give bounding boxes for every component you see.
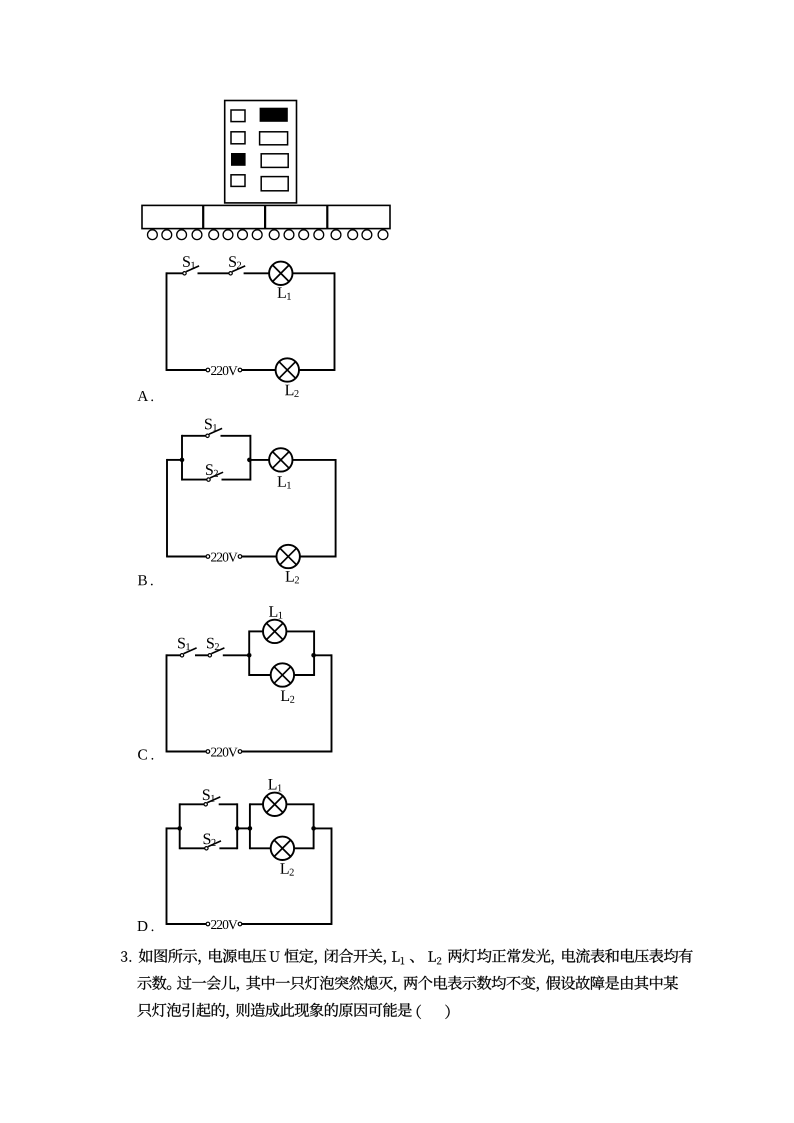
wire left vertical <box>166 654 168 752</box>
power source terminal right <box>238 750 242 754</box>
wire left vertical <box>166 827 168 925</box>
power source terminal left <box>206 750 210 754</box>
option label B <box>138 575 153 585</box>
junction dot right (circuit B) <box>247 458 252 463</box>
option label A <box>137 391 153 401</box>
junction dot switchbox-right (circuit D) <box>235 826 240 831</box>
label S2 (circuit D) <box>204 834 216 846</box>
switch S2 (circuit D) <box>205 841 221 850</box>
wire to L2 <box>242 556 277 558</box>
label S2 (circuit A) <box>229 256 241 268</box>
power source terminal left <box>206 922 210 926</box>
window row1 right (black) <box>260 108 288 122</box>
wire lamp box right vertical <box>313 803 315 849</box>
car divider 2 <box>264 205 266 228</box>
wire bottom branch to S2 <box>182 479 207 481</box>
label L2 (circuit A) <box>285 385 299 397</box>
junction dot lampbox-left (circuit D) <box>248 826 253 831</box>
wire right vertical <box>334 272 336 371</box>
wire L2 to corner <box>300 556 336 558</box>
wire top: corner to S1 <box>167 272 183 274</box>
wire bottom right <box>242 923 332 925</box>
wire bottom right <box>242 751 332 753</box>
label S2 (circuit B) <box>206 464 218 476</box>
wire stub to switch box <box>167 827 180 829</box>
power source label 220V <box>211 920 237 929</box>
wire L1 to box right <box>286 803 313 805</box>
wire right vertical <box>335 459 337 558</box>
circuit B wires <box>167 435 336 558</box>
label L1 (circuit A) <box>278 287 291 299</box>
power source label 220V <box>211 366 237 375</box>
switch S2 (circuit A) <box>229 266 245 275</box>
label L1 (circuit D) <box>268 779 281 791</box>
question text line 2 <box>137 976 678 992</box>
junction dot lampbox-right (circuit D) <box>311 826 316 831</box>
window row4 left (white) <box>231 175 245 187</box>
switch S2 (circuit C) <box>208 648 224 657</box>
window row3 left (black) <box>231 153 246 166</box>
wire switch box left vertical <box>179 803 181 849</box>
wire S2 to lamp L1 <box>244 272 270 274</box>
option label C <box>138 749 153 759</box>
switch S1 (circuit B) <box>206 428 222 437</box>
wire switch box right vertical <box>236 803 238 849</box>
wire box left vertical <box>248 630 250 676</box>
wire L1 to corner <box>293 272 335 274</box>
wire box right vertical <box>313 630 315 676</box>
label L1 (circuit B) <box>278 476 291 488</box>
lamp L2 (circuit A) <box>276 358 299 381</box>
window row3 right (white) <box>261 154 288 168</box>
wire S1 to S2 <box>195 654 208 656</box>
wire S1 to box right <box>221 435 251 437</box>
question text line 3 <box>137 1003 449 1019</box>
power source terminal left <box>206 368 210 372</box>
label L2 (circuit B) <box>286 571 300 583</box>
power source label 220V <box>211 553 237 562</box>
label S2 (circuit C) <box>207 638 219 650</box>
switch S2 (circuit B) <box>207 472 223 481</box>
lamp L2 (circuit B) <box>277 545 300 568</box>
lamp L1 (circuit B) <box>269 448 292 471</box>
train body bar <box>142 205 390 228</box>
wire L1 to right corner <box>293 459 336 461</box>
wire stub to switch box <box>167 459 182 461</box>
wire top branch to S1 <box>182 435 206 437</box>
wire lamp box to right corner <box>314 827 332 829</box>
window row2 right (white) <box>260 132 288 145</box>
label L1 (circuit C) <box>269 606 282 618</box>
power source terminal right <box>238 368 242 372</box>
wire bottom branch to L2 <box>249 674 271 676</box>
train wheels <box>148 230 388 240</box>
car divider 1 <box>202 205 204 228</box>
wire to S1 <box>167 654 181 656</box>
power source 220V (circuit C) <box>206 748 242 757</box>
wire S1 to box right <box>219 803 238 805</box>
wire right vertical <box>331 654 333 752</box>
wire L2 to box right <box>294 847 314 849</box>
power source 220V (circuit A) <box>206 366 242 375</box>
label L2 (circuit C) <box>281 691 295 703</box>
window row2 left (white) <box>231 132 245 144</box>
wire S2 to box right <box>222 479 251 481</box>
question text line 1 <box>121 949 693 965</box>
lamp L2 (circuit D) <box>271 837 294 860</box>
wire L1 to box right <box>286 630 314 632</box>
wire bottom: corner to left terminal <box>167 369 207 371</box>
option label D <box>137 921 153 931</box>
wire right vertical <box>331 827 333 925</box>
wire bottom left <box>167 923 207 925</box>
junction dot left (circuit C) <box>247 653 252 658</box>
wire S2 to box right <box>219 847 237 849</box>
wire bottom branch to S2 <box>180 847 205 849</box>
label L2 (circuit D) <box>280 863 294 875</box>
wire to L1 <box>250 803 263 805</box>
label S1 (circuit B) <box>205 419 217 431</box>
switch S1 (circuit C) <box>180 648 196 657</box>
circuit A wires <box>167 272 335 371</box>
label S1 (circuit D) <box>203 789 215 801</box>
switch S1 (circuit A) <box>183 266 199 275</box>
wire box to right corner <box>314 654 331 656</box>
wire S2 to lamp box <box>223 654 249 656</box>
wire L2 to box right <box>294 674 314 676</box>
power source terminal left <box>206 555 210 559</box>
wire S1 to S2 <box>198 272 229 274</box>
lamp L2 (circuit C) <box>271 663 294 686</box>
wire bottom left <box>167 556 206 558</box>
wire box right vertical <box>249 435 251 481</box>
junction dot right (circuit C) <box>311 653 316 658</box>
car divider 3 <box>326 205 328 228</box>
lamp L1 (circuit A) <box>269 262 292 285</box>
junction dot left (circuit B) <box>180 458 185 463</box>
wire top branch to S1 <box>180 803 204 805</box>
window row1 left (white) <box>231 110 245 122</box>
power source label 220V <box>211 748 237 757</box>
wire L2 to corner <box>299 369 335 371</box>
switch S1 (circuit D) <box>204 797 220 806</box>
circuit C wires <box>167 630 332 752</box>
power source 220V (circuit D) <box>206 920 242 929</box>
lamp L1 (circuit C) <box>263 620 286 643</box>
wire left vertical <box>166 272 168 371</box>
building outline <box>225 101 297 203</box>
circuit D wires <box>167 803 332 925</box>
power source 220V (circuit B) <box>206 553 242 562</box>
wire box left vertical <box>181 435 183 481</box>
power source terminal right <box>238 555 242 559</box>
window row4 right (white) <box>261 177 288 191</box>
wire box to lamp L1 <box>250 459 269 461</box>
wire to L2 <box>250 847 271 849</box>
power source terminal right <box>238 922 242 926</box>
junction dot far-left (circuit D) <box>177 826 182 831</box>
wire bottom left <box>167 751 207 753</box>
label S1 (circuit C) <box>178 638 190 650</box>
wire left vertical <box>166 459 168 558</box>
wire lamp box left vertical <box>249 803 251 849</box>
wire between boxes <box>237 827 250 829</box>
wire top branch to L1 <box>249 630 263 632</box>
label S1 (circuit A) <box>183 256 195 268</box>
lamp L1 (circuit D) <box>263 793 286 816</box>
wire right terminal to L2 <box>242 369 276 371</box>
